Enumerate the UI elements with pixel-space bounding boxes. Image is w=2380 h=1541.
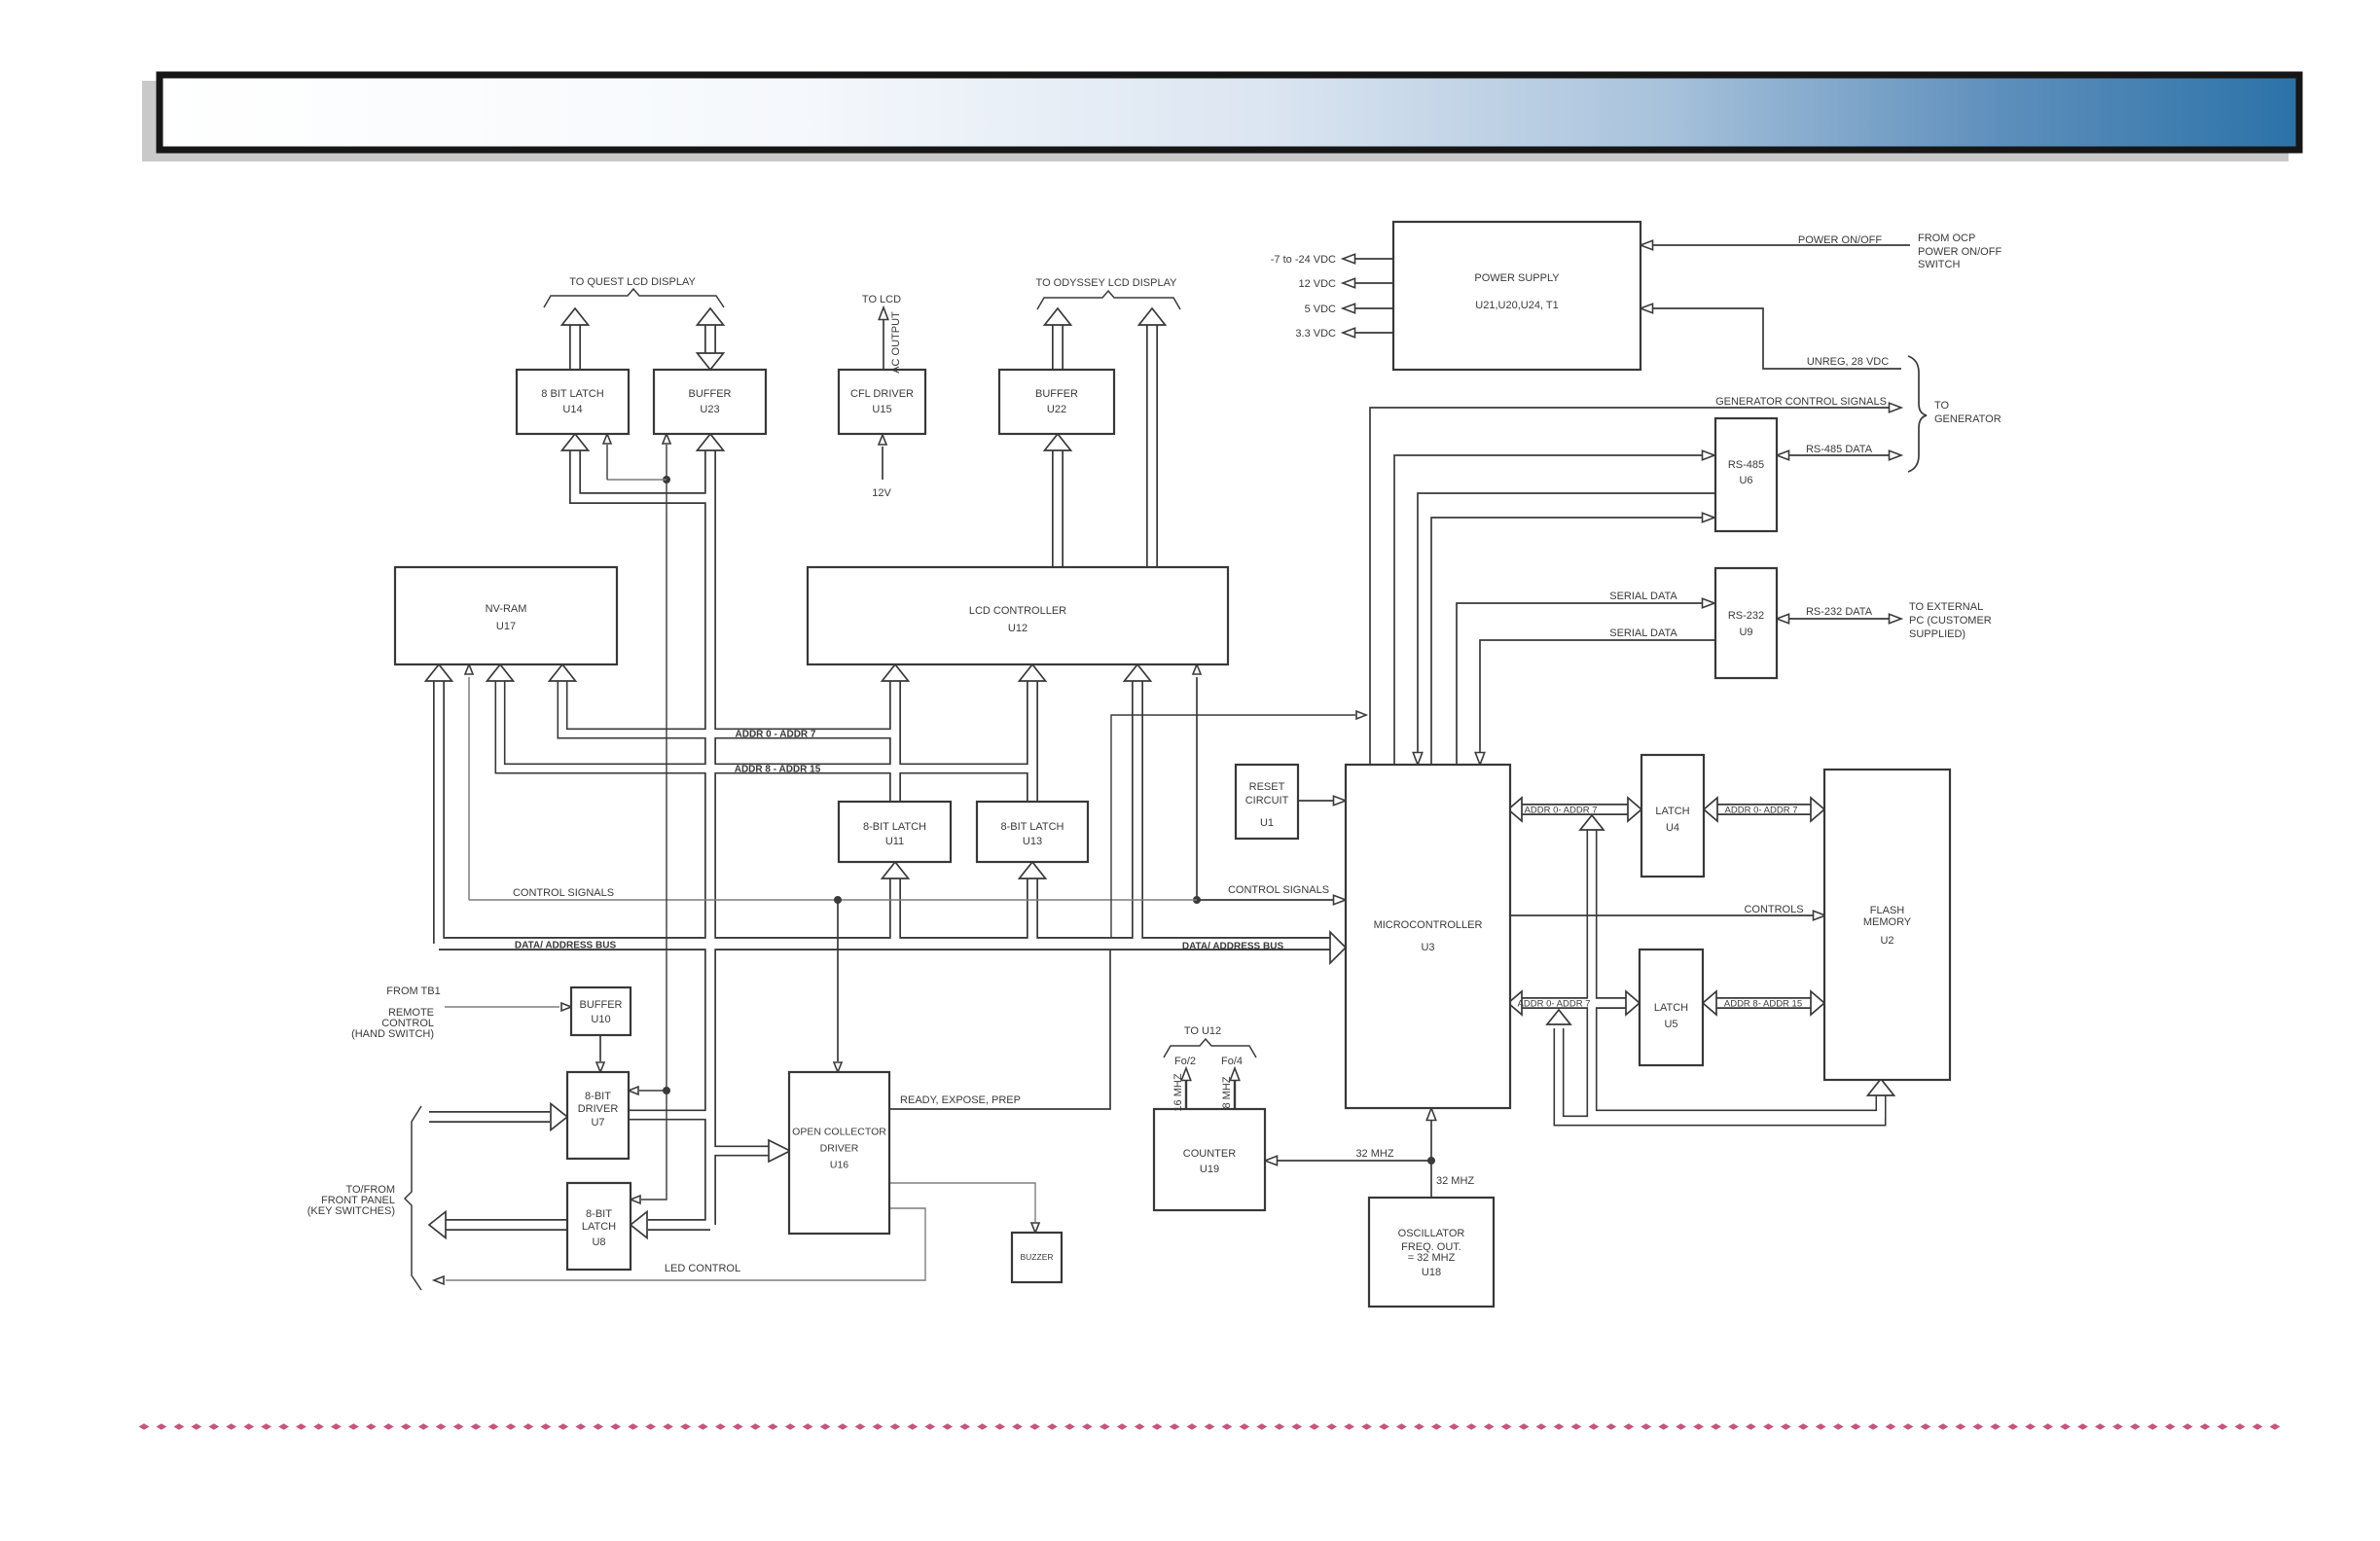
svg-text:NV-RAM: NV-RAM (486, 603, 527, 615)
svg-text:UNREG, 28 VDC: UNREG, 28 VDC (1807, 356, 1889, 368)
svg-text:U13: U13 (1023, 836, 1042, 847)
wire: 12V into CFL driver (879, 435, 886, 445)
svg-text:U5: U5 (1664, 1019, 1677, 1030)
svg-text:TO QUEST LCD DISPLAY: TO QUEST LCD DISPLAY (569, 276, 696, 288)
svg-text:RS-232: RS-232 (1728, 610, 1764, 622)
svg-text:CFL DRIVER: CFL DRIVER (850, 388, 914, 400)
CFL driver U15 (839, 370, 925, 434)
svg-text:Fo/4: Fo/4 (1221, 1056, 1243, 1067)
wire: led control (446, 1208, 925, 1280)
svg-text:U23: U23 (700, 404, 719, 415)
svg-text:U9: U9 (1739, 627, 1752, 638)
svg-text:RESET: RESET (1249, 781, 1285, 793)
svg-text:3.3 VDC: 3.3 VDC (1295, 328, 1336, 340)
wire: u12 data shaft (1132, 681, 1143, 944)
svg-text:POWER ON/OFF: POWER ON/OFF (1918, 246, 2001, 258)
wire: u23 vertical bus (704, 448, 716, 1225)
bus arrowhead into U22 (1045, 434, 1071, 450)
svg-text:PC (CUSTOMER: PC (CUSTOMER (1909, 615, 1992, 627)
8-bit driver U7 (567, 1072, 629, 1159)
svg-text:ADDR 0- ADDR 7: ADDR 0- ADDR 7 (1725, 805, 1798, 815)
arrowhead addr bus into U5 (1626, 991, 1640, 1015)
svg-text:LED CONTROL: LED CONTROL (665, 1263, 740, 1274)
wire: addr8-15 bus (500, 681, 1032, 769)
svg-text:TO U12: TO U12 (1184, 1025, 1221, 1037)
wire: power on/off (1641, 240, 1653, 250)
svg-text:U10: U10 (591, 1014, 610, 1025)
svg-text:MICROCONTROLLER: MICROCONTROLLER (1374, 919, 1483, 931)
svg-text:LCD CONTROLLER: LCD CONTROLLER (969, 605, 1066, 617)
wire: u11 lower shaft (889, 877, 901, 944)
wire: u7 left bus (429, 1111, 550, 1123)
wire: rs-485 data (1787, 454, 1891, 456)
wire: unreg 28 vdc (1641, 304, 1653, 313)
svg-text:DATA/ ADDRESS BUS: DATA/ ADDRESS BUS (1182, 942, 1284, 952)
wire: addr feedback path B (1559, 1028, 1881, 1121)
oscillator U18 (1369, 1198, 1494, 1307)
open collector driver U16 (789, 1072, 889, 1234)
arrowhead addr bus into U4 right (1704, 798, 1717, 821)
svg-text:-7 to -24 VDC: -7 to -24 VDC (1271, 254, 1336, 266)
svg-text:U2: U2 (1880, 935, 1893, 947)
wire: u4-u2 addr bus (1717, 804, 1811, 815)
svg-text:BUFFER: BUFFER (580, 999, 623, 1011)
svg-text:BUZZER: BUZZER (1021, 1252, 1054, 1262)
data bus arrowhead into microcontroller U3 (1330, 932, 1346, 963)
bus arrowhead into U8 (631, 1212, 647, 1238)
wire: controls mc to flash (1510, 914, 1814, 916)
wire: serial data rs-232 to mc (1480, 640, 1715, 753)
microcontroller U3 (1346, 765, 1510, 1108)
svg-text:RS-485: RS-485 (1728, 459, 1764, 471)
arrowhead feedback into U3-U4 bus (1580, 815, 1604, 830)
svg-text:U16: U16 (830, 1160, 848, 1171)
wire: serial data mc to rs-232 (1457, 603, 1705, 765)
arrowhead addr bus into U3 lower (1508, 991, 1522, 1015)
svg-text:TO EXTERNAL: TO EXTERNAL (1909, 601, 1983, 613)
8-bit latch U13 (977, 802, 1088, 862)
8-bit latch U14 (517, 370, 629, 434)
wire: u8 left bus (446, 1219, 567, 1231)
wire: nv-ram data shaft (433, 681, 445, 944)
arrowhead U12 to odyssey display (1139, 308, 1166, 325)
svg-text:SERIAL DATA: SERIAL DATA (1609, 591, 1677, 602)
buffer U23 (654, 370, 766, 434)
bus arrowhead into U11 (883, 862, 909, 878)
power supply (1393, 222, 1641, 370)
NV-RAM U17 (395, 567, 617, 664)
wire: u22 bottom shaft (1052, 448, 1064, 567)
arrowhead addr bus into U5 right (1703, 991, 1716, 1015)
svg-text:U15: U15 (872, 404, 891, 415)
wire: u14 top shaft (569, 323, 581, 370)
wire: control signals right (1197, 899, 1335, 901)
arrowhead U22 to odyssey display (1045, 308, 1071, 325)
svg-text:POWER SUPPLY: POWER SUPPLY (1474, 272, 1560, 284)
svg-text:U17: U17 (496, 621, 516, 632)
wire: counter outputs 16mhz 8mhz (1185, 1080, 1187, 1109)
bus arrowhead into U23 (698, 434, 724, 450)
buzzer (1012, 1233, 1062, 1282)
svg-text:MEMORY: MEMORY (1863, 916, 1912, 928)
svg-text:FROM TB1: FROM TB1 (386, 986, 440, 997)
reset circuit U1 (1236, 765, 1298, 839)
bus arrowhead into NV-RAM addr8-15 (487, 664, 514, 681)
svg-text:U8: U8 (592, 1236, 605, 1248)
wire: remote control to buffer u10 (445, 1006, 559, 1008)
svg-text:OPEN COLLECTOR: OPEN COLLECTOR (792, 1127, 886, 1138)
svg-text:U7: U7 (591, 1117, 604, 1129)
svg-text:(HAND SWITCH): (HAND SWITCH) (351, 1028, 434, 1040)
wire: u11-u12 shaft (889, 681, 901, 802)
brace: front panel (405, 1106, 421, 1290)
wire: u7 right bus (629, 1110, 710, 1121)
wire: ready expose prep (889, 950, 1110, 1109)
arrowhead U23 up (698, 308, 724, 325)
wire: control to open collector driver (834, 896, 842, 904)
bus arrowhead into U14 (562, 434, 589, 450)
svg-text:TO: TO (1934, 400, 1950, 412)
wire: u16 branch bus (710, 1146, 769, 1157)
svg-text:U22: U22 (1047, 404, 1066, 415)
svg-text:16 MHZ: 16 MHZ (1172, 1073, 1184, 1111)
wire: rs-485 to mc (1418, 493, 1715, 753)
wire: rs-232 data (1787, 618, 1891, 620)
svg-text:AC OUTPUT: AC OUTPUT (890, 311, 902, 374)
svg-text:FROM OCP: FROM OCP (1918, 233, 1975, 244)
brace: to generator (1908, 356, 1927, 472)
svg-text:U1: U1 (1260, 817, 1274, 829)
svg-text:U12: U12 (1008, 623, 1028, 634)
arrowhead addr bus into U2 (1811, 798, 1824, 821)
svg-text:SERIAL DATA: SERIAL DATA (1609, 627, 1677, 639)
buffer U22 (999, 370, 1114, 434)
arrowhead addr bus into U4 (1628, 798, 1641, 821)
wire: u23 top shaft (704, 323, 716, 356)
wire: 32 mhz (1265, 1156, 1278, 1165)
svg-text:TO ODYSSEY LCD DISPLAY: TO ODYSSEY LCD DISPLAY (1036, 277, 1178, 289)
svg-text:32 MHZ: 32 MHZ (1355, 1148, 1393, 1160)
svg-text:SUPPLIED): SUPPLIED) (1909, 628, 1965, 640)
svg-text:CONTROLS: CONTROLS (1744, 904, 1803, 915)
svg-text:RS-485 DATA: RS-485 DATA (1806, 444, 1873, 455)
latch U5 (1640, 950, 1703, 1065)
svg-text:U21,U20,U24, T1: U21,U20,U24, T1 (1475, 300, 1558, 311)
wire: reset to mc (1298, 800, 1335, 802)
svg-text:DRIVER: DRIVER (578, 1103, 619, 1115)
svg-text:U4: U4 (1666, 822, 1679, 834)
svg-text:U11: U11 (885, 836, 904, 847)
LCD controller U12 (808, 567, 1228, 664)
svg-text:8 BIT LATCH: 8 BIT LATCH (541, 388, 603, 400)
svg-text:ADDR 0- ADDR 7: ADDR 0- ADDR 7 (1518, 998, 1591, 1009)
svg-text:BUFFER: BUFFER (689, 388, 732, 400)
svg-text:DATA/ ADDRESS BUS: DATA/ ADDRESS BUS (515, 941, 617, 951)
svg-text:GENERATOR CONTROL SIGNALS: GENERATOR CONTROL SIGNALS (1715, 396, 1887, 408)
arrowhead U23 down (698, 353, 724, 370)
svg-text:8-BIT: 8-BIT (586, 1208, 612, 1220)
wire: u13-u12 shaft (1027, 681, 1038, 802)
bus arrowhead into U7 (551, 1104, 567, 1130)
wire: odyssey shaft (1146, 323, 1158, 567)
bus arrowhead into NV-RAM data (426, 664, 452, 681)
wire: mc to rs-485 a (1394, 455, 1705, 765)
wire: u22 top shaft (1052, 323, 1064, 370)
wire: u14/u23 junction bus (575, 448, 710, 498)
header banner shadow (142, 81, 2289, 161)
wire: u16 to buzzer (889, 1183, 1035, 1222)
wire: u8 right bus (648, 1219, 710, 1231)
wire: CFL driver to LCD (883, 318, 884, 370)
bus channel white fills (439, 939, 1330, 949)
counter U19 (1154, 1109, 1265, 1210)
buffer U10 (571, 987, 631, 1035)
svg-text:12V: 12V (872, 487, 891, 499)
8-bit latch U8 (567, 1183, 631, 1270)
svg-text:U14: U14 (562, 404, 582, 415)
svg-text:CONTROL SIGNALS: CONTROL SIGNALS (1228, 884, 1329, 896)
svg-text:32 MHZ: 32 MHZ (1436, 1175, 1474, 1187)
8-bit latch U11 (839, 802, 951, 862)
svg-text:U19: U19 (1200, 1164, 1219, 1175)
svg-text:12 VDC: 12 VDC (1298, 278, 1336, 290)
bus arrowhead into U12 data (1125, 664, 1151, 681)
wire: control chain u23/u14/u7/u8 (663, 434, 670, 444)
svg-text:ADDR 0- ADDR 7: ADDR 0- ADDR 7 (1525, 805, 1598, 815)
bus arrowhead into U16 (769, 1140, 790, 1162)
svg-text:8-BIT: 8-BIT (585, 1091, 611, 1102)
RS-485 U6 (1715, 418, 1777, 531)
bus arrowhead into U13 (1020, 862, 1046, 878)
flash memory U2 (1824, 770, 1950, 1080)
bus arrowhead into U12 from U11 (883, 664, 909, 681)
wire: bus area to generator line (1111, 715, 1355, 937)
bus arrowhead into NV-RAM addr0-7 (550, 664, 576, 681)
wire: addr0-7 bus (562, 681, 895, 734)
brace: to u12 (1164, 1039, 1256, 1057)
wire: mc to rs-485 b (1431, 518, 1705, 765)
svg-text:BUFFER: BUFFER (1035, 388, 1078, 400)
svg-text:POWER ON/OFF: POWER ON/OFF (1798, 234, 1882, 246)
svg-text:(KEY SWITCHES): (KEY SWITCHES) (307, 1205, 395, 1217)
svg-text:TO LCD: TO LCD (862, 294, 901, 305)
wire: mc-u4 addr bus (1522, 804, 1628, 815)
svg-text:ADDR 8- ADDR 15: ADDR 8- ADDR 15 (1724, 998, 1802, 1009)
decorative dotted separator (139, 1423, 2281, 1430)
arrowhead U14 to quest display (562, 308, 589, 325)
svg-text:READY, EXPOSE, PREP: READY, EXPOSE, PREP (900, 1094, 1021, 1106)
svg-text:GENERATOR: GENERATOR (1934, 413, 2001, 425)
svg-text:8 MHZ: 8 MHZ (1221, 1076, 1233, 1108)
wire: u5-u2 addr bus (1716, 997, 1811, 1009)
bus arrowhead into U2 bottom (1868, 1079, 1894, 1095)
svg-text:ADDR 8 - ADDR 15: ADDR 8 - ADDR 15 (735, 765, 821, 775)
bus arrowhead into U12 from U13 (1020, 664, 1046, 681)
svg-text:5 VDC: 5 VDC (1305, 304, 1336, 315)
svg-text:U18: U18 (1422, 1267, 1441, 1278)
svg-text:Fo/2: Fo/2 (1174, 1056, 1196, 1067)
svg-text:LATCH: LATCH (582, 1221, 616, 1233)
svg-text:DRIVER: DRIVER (820, 1143, 859, 1155)
svg-text:= 32 MHZ: = 32 MHZ (1408, 1252, 1456, 1264)
wire: addr feedback path A (1592, 829, 1881, 1115)
svg-text:ADDR 0 - ADDR 7: ADDR 0 - ADDR 7 (736, 730, 816, 740)
brace: quest display (544, 289, 724, 307)
arrowhead feedback into U3-U5 bus (1547, 1010, 1570, 1024)
svg-text:LATCH: LATCH (1655, 806, 1689, 817)
wire: u10 to u7 (599, 1035, 601, 1061)
svg-text:RS-232 DATA: RS-232 DATA (1806, 606, 1873, 618)
wire: u13 lower shaft (1027, 877, 1038, 944)
svg-text:CONTROL SIGNALS: CONTROL SIGNALS (513, 887, 614, 899)
latch U4 (1641, 755, 1704, 877)
svg-text:OSCILLATOR: OSCILLATOR (1398, 1228, 1465, 1239)
arrowhead addr bus into U2 lower (1811, 991, 1824, 1015)
svg-text:COUNTER: COUNTER (1183, 1148, 1236, 1160)
wire: data/address bus (439, 937, 1330, 950)
svg-text:FLASH: FLASH (1870, 905, 1905, 916)
wire: generator control signals (1370, 408, 1892, 765)
arrowhead addr bus into U3 (1508, 798, 1522, 821)
bus arrowhead to front panel (429, 1212, 446, 1238)
brace: odyssey display (1037, 291, 1180, 309)
RS-232 U9 (1715, 568, 1777, 678)
svg-text:LATCH: LATCH (1654, 1002, 1688, 1014)
wire: mc-u5 addr bus (1522, 997, 1626, 1009)
svg-text:U3: U3 (1421, 942, 1434, 953)
wire: control signals left (469, 899, 1197, 901)
svg-text:8-BIT LATCH: 8-BIT LATCH (863, 821, 926, 833)
svg-text:SWITCH: SWITCH (1918, 259, 1960, 270)
svg-text:U6: U6 (1739, 475, 1752, 486)
svg-text:CIRCUIT: CIRCUIT (1245, 795, 1289, 806)
svg-text:8-BIT LATCH: 8-BIT LATCH (1001, 821, 1064, 833)
wire: power supply outputs (1354, 258, 1393, 260)
